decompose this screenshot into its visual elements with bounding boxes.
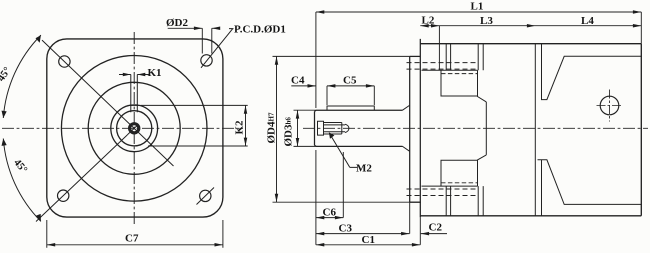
flange back / body front face [419,39,421,217]
hidden bolt hole lines top [407,63,478,70]
boss bottom cap [410,201,421,203]
motor hole centerlines [597,90,624,122]
C7 dimension [47,220,223,248]
motor flange hole [600,96,619,115]
svg-text:L2: L2 [422,15,435,27]
flange back extension to C1 [419,217,421,245]
arrowhead lower arc start [2,139,7,146]
bolt hole top-left [59,56,70,67]
shaft circle [117,111,152,146]
pilot boss front face [409,56,411,202]
svg-text:L4: L4 [581,15,594,27]
C4/C5 dimension row [291,85,374,87]
svg-text:C4: C4 [291,75,305,87]
keyway slot lines [131,75,138,113]
L3/L4 joint line [534,44,536,216]
bolt hole top-right [201,55,212,66]
shoulder line top [422,69,478,71]
svg-text:ØD2: ØD2 [166,17,189,29]
hub/flare circle [111,105,158,152]
flange outline (rounded square) [47,39,223,217]
top boss box [441,70,486,102]
M2 minor lines [324,125,346,132]
C3 dimension [316,233,410,235]
K2 dimension extension lines [141,105,248,146]
keyway cap [128,104,141,106]
shaft flare to boss [403,105,410,151]
bottom boss dashed inner line [441,182,478,184]
body circle (D4) [61,56,207,202]
C1 dimension [316,244,420,246]
svg-text:C7: C7 [125,233,139,245]
OD3 extension lines [294,110,317,146]
svg-text:M2: M2 [356,163,372,175]
middle vertical between chamfers [485,102,487,155]
bolt hole bottom-left [58,190,69,201]
svg-text:C1: C1 [362,234,375,246]
shoulder line bottom [422,185,478,187]
OD2 dimension [168,27,218,29]
OD4 extension lines [273,56,422,202]
top boss dashed inner line [441,73,478,75]
svg-text:K2: K2 [234,120,246,135]
45 deg arc upper [3,35,41,118]
body outline [420,44,641,216]
short verticals at top edge [446,44,483,71]
side view centerline [303,127,648,129]
boss top cap [410,55,421,57]
45 deg arc lower [3,139,41,222]
short verticals at bottom edge [446,186,483,216]
arrowhead lower arc end [36,214,41,222]
arrowhead upper arc start [2,111,7,118]
L4 section bottom cut [538,160,642,216]
shaft-end lower extension line [315,150,317,245]
M2 tapped hole: chamfer box [318,121,324,135]
diagonal centerline A (top-left to bottom-right) [42,40,174,166]
pilot boss circle [88,82,180,174]
K1 dimension [119,74,150,76]
M2 thread lines [324,123,342,135]
C2 dimension (outside arrow with tail) [421,233,447,235]
PCD leader [201,29,234,68]
OD3 dimension line [297,110,299,146]
svg-text:K1: K1 [148,67,162,79]
horizontal centerline [2,127,243,129]
C5 extension lines [327,86,374,105]
hidden bolt hole lines bottom [407,189,478,196]
svg-text:C5: C5 [343,75,357,87]
svg-text:L1: L1 [471,1,484,13]
boss face extension line [409,202,411,233]
M2 leader and label [330,134,357,167]
L1 dimension [316,11,641,13]
shaft end face [315,110,317,146]
OD2 extension lines [202,28,212,53]
arrowhead upper arc end [36,35,41,43]
svg-text:C6: C6 [323,207,337,219]
svg-text:P.C.D.ØD1: P.C.D.ØD1 [234,24,286,36]
key on shaft [327,106,374,110]
shaft outline [316,110,403,146]
center hole (thick small circle) [130,124,139,133]
L2 extension line [438,26,440,71]
L1 extension lines [316,12,641,108]
C6 dimension [316,217,343,219]
C6 extension line [342,152,344,218]
svg-text:C2: C2 [429,222,443,234]
bottom boss box [441,155,486,186]
K2 dimension line [245,105,247,146]
OD4 dimension line [276,56,278,202]
diagonal centerline B (bottom-left to center) [36,125,138,221]
vertical centerline [133,32,135,224]
L4 section top cut: vertical, foot, diagonal, inner line [542,44,642,100]
M2 hole end cap [342,123,349,135]
slash through bottom-right bolt hole [197,188,215,205]
svg-text:C3: C3 [339,223,353,235]
L2/L3/L4 dimension row [420,25,641,27]
svg-text:L3: L3 [480,15,493,27]
bolt hole bottom-right [200,190,211,201]
